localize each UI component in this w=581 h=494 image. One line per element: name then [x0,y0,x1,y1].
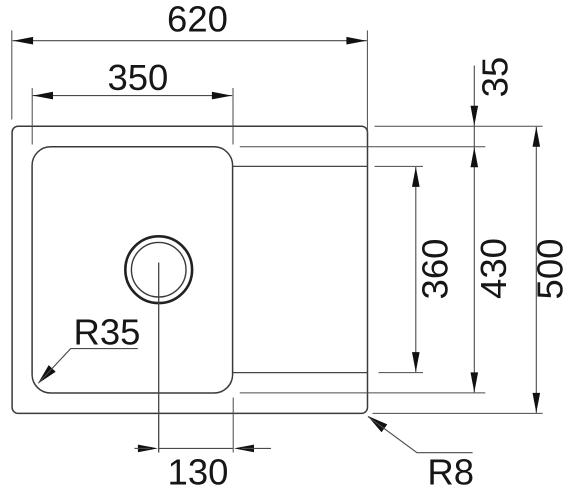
dim 130 right outside arrowhead (points left) [234,445,254,453]
extension line ledge bottom right [379,372,424,374]
dim 620 left arrowhead [13,37,33,45]
dim 35 bottom / 430 top arrowhead (up) [471,147,479,167]
drain center line [158,263,160,453]
drain hole inner circle [131,242,186,297]
leader R35 arrowhead [38,365,56,384]
dim 35 top arrowhead (down) [471,106,479,126]
svg-text:500: 500 [530,239,571,300]
extension line sink top edge right [375,125,543,127]
dim 500 dimension line [535,127,537,413]
dim 360 top arrowhead (up) [412,167,420,187]
dim 130 dimension line [159,447,234,449]
dim 500 top arrowhead (up) [533,127,541,147]
drain hole outer circle [125,236,192,303]
extension line bowl bottom edge right [240,392,485,394]
sink outer outline [12,126,367,413]
dim 620 right arrowhead [346,37,366,45]
svg-text:R8: R8 [427,451,474,492]
dim 350 left extension line [31,88,33,145]
svg-text:430: 430 [473,238,514,299]
svg-text:R35: R35 [74,311,141,352]
dim 350 dimension line [33,95,233,97]
svg-text:35: 35 [475,57,516,98]
dim 620 right extension line [366,30,368,133]
dim 620 dimension line [13,40,367,42]
dim 130 left arrow tail [135,447,151,449]
drainboard ledge bottom line [233,372,368,374]
svg-text:350: 350 [107,57,168,98]
dim 130 left outside arrowhead (points right) [138,445,158,453]
svg-text:130: 130 [168,452,229,493]
dim 430 bottom arrowhead (down) [471,372,479,392]
extension line bowl top edge right [240,146,485,148]
dim 500 bottom arrowhead (down) [533,393,541,413]
extension line sink bottom edge right [373,412,543,414]
dim 130 right extension line (bowl right edge) [232,398,234,453]
leader R8 arrowhead [368,416,388,432]
svg-text:620: 620 [167,0,228,40]
dim 350 right arrowhead [212,92,232,100]
bowl outline [32,147,233,393]
dim 360 bottom arrowhead (down) [412,352,420,372]
extension line ledge top right [375,165,424,167]
leader R8 line [368,417,473,453]
svg-text:360: 360 [415,239,456,300]
dim 620 left extension line [11,30,13,119]
drainboard ledge top line [233,165,368,167]
dim 35 / 430 shared dimension line [473,66,475,393]
dim 130 right arrow tail [242,447,271,449]
dim 350 left arrowhead [33,92,53,100]
leader R35 line [39,349,138,383]
dim 360 dimension line [415,167,417,372]
dim 350 right extension line [232,88,234,145]
